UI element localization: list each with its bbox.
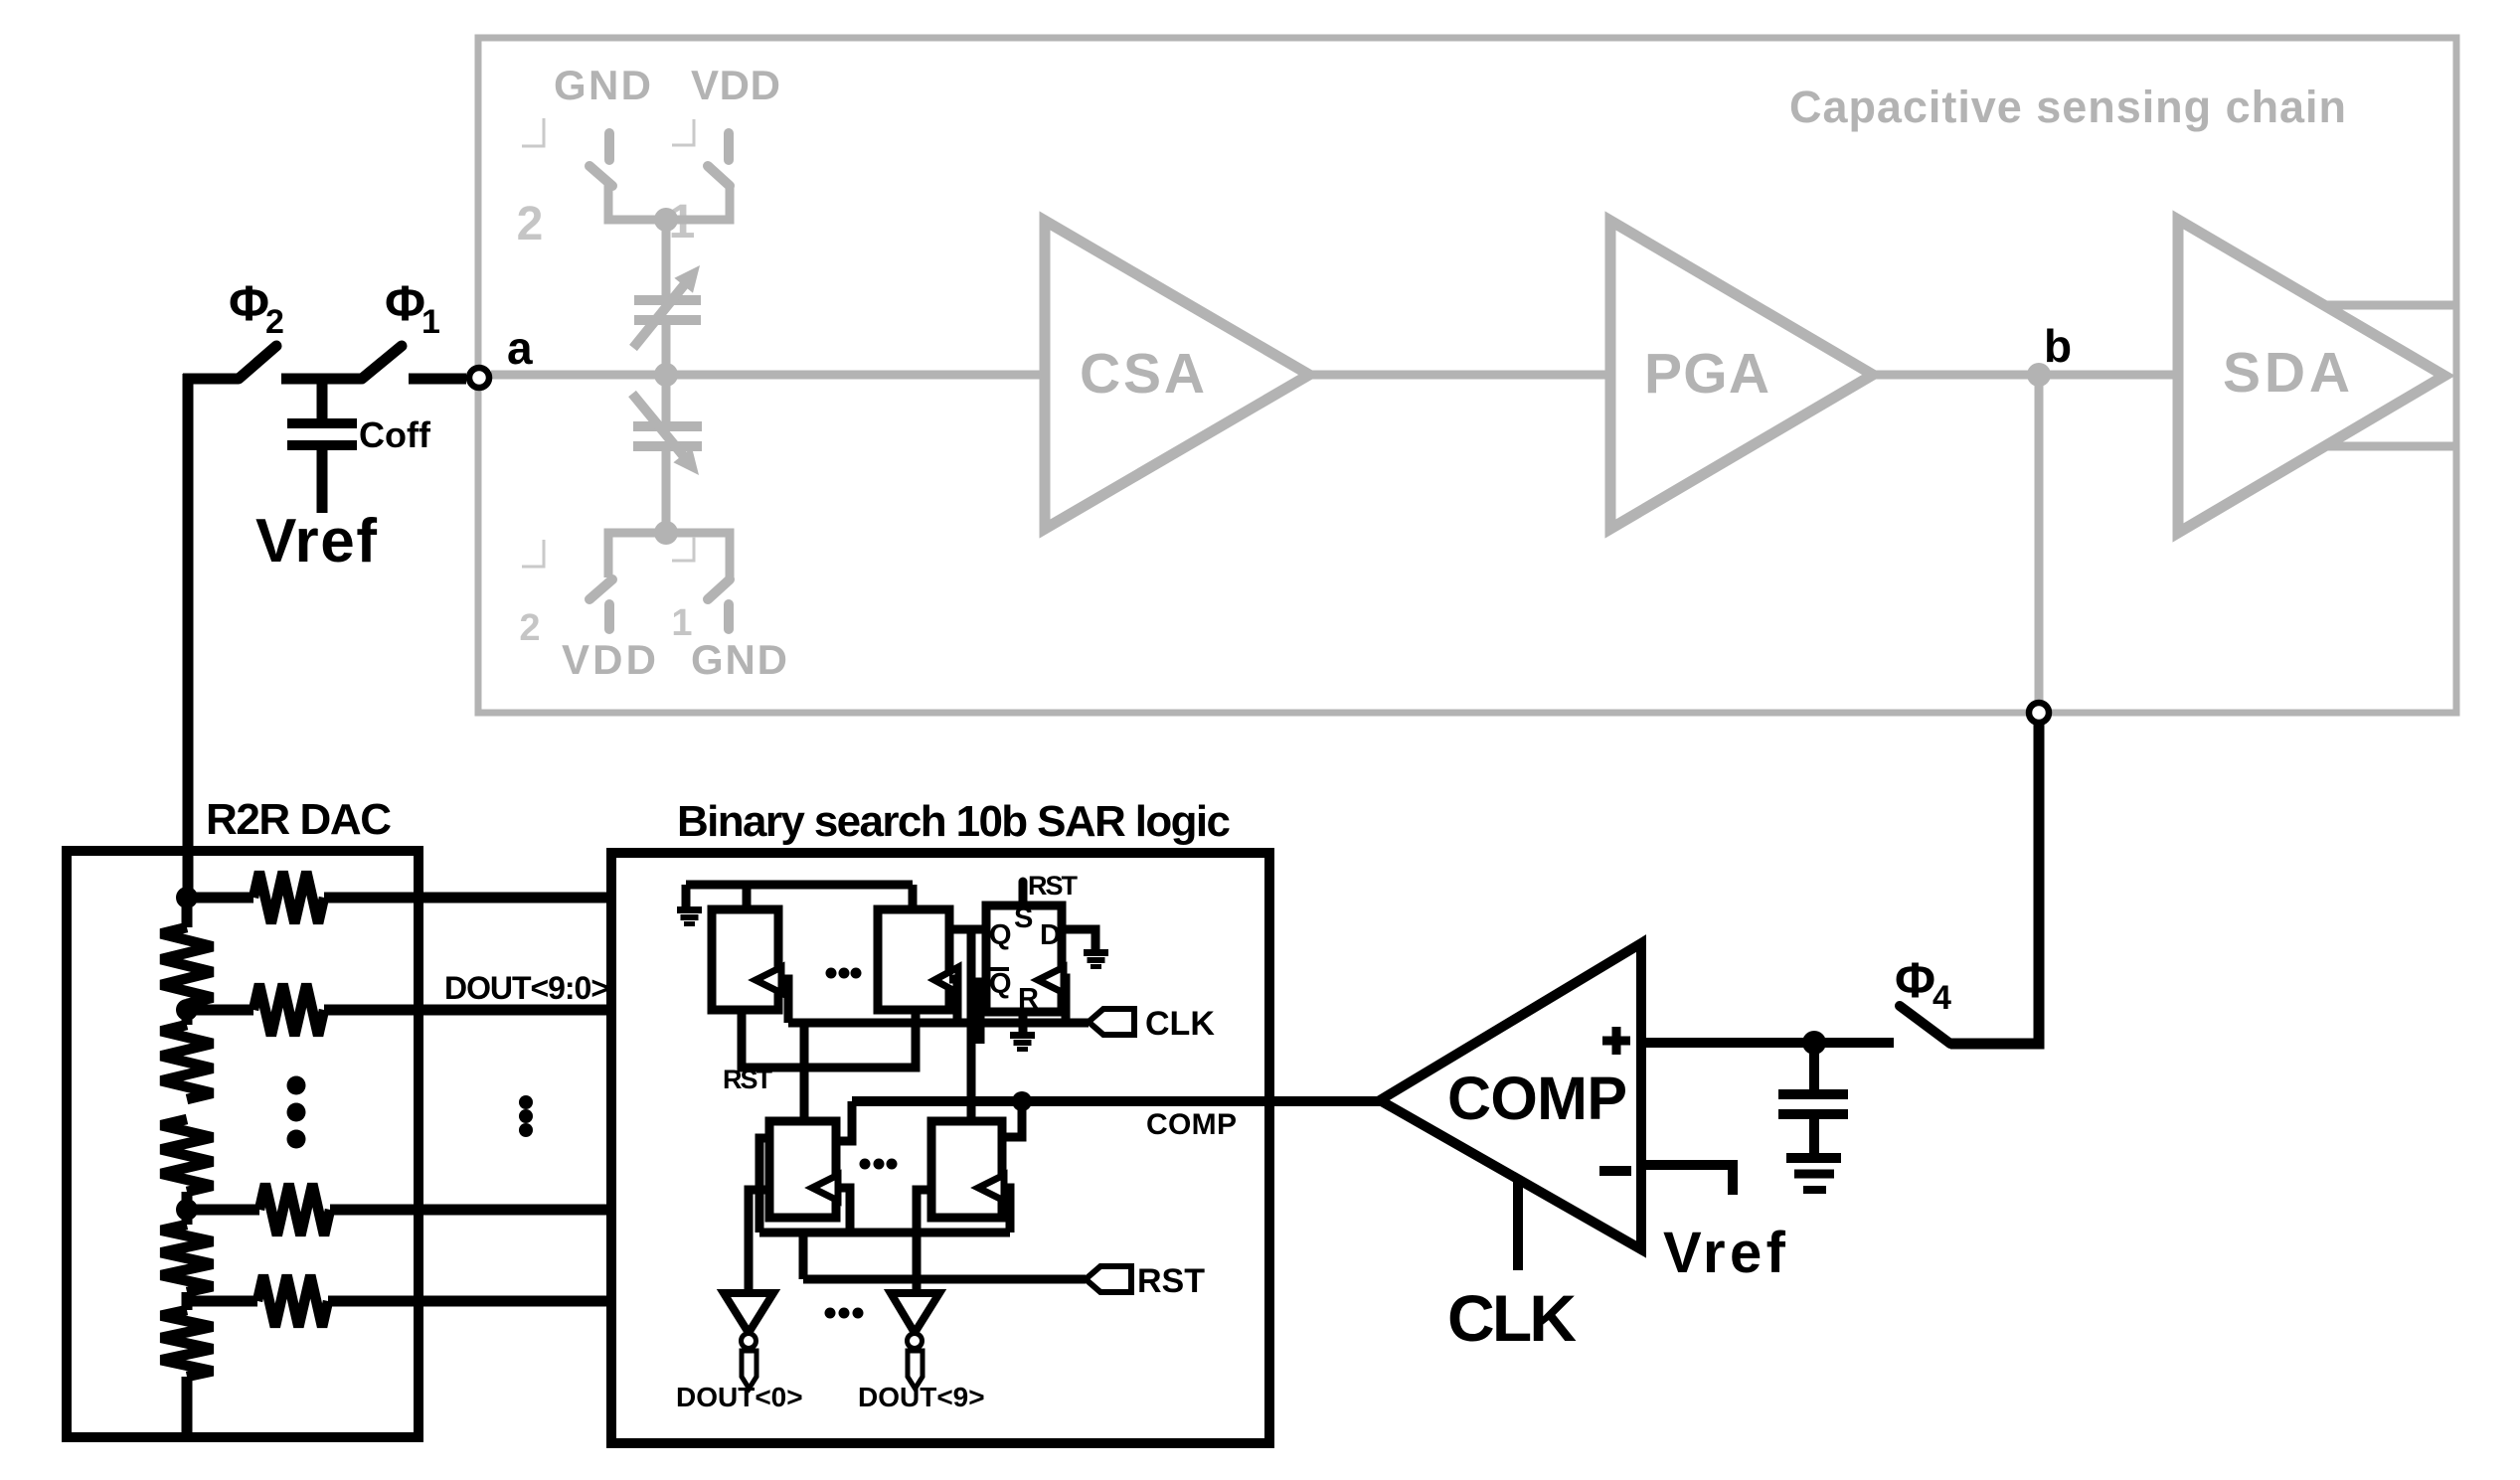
FF3 clock chevron: [812, 1175, 838, 1201]
node top switch junction: [654, 208, 678, 232]
op-amp CSA: [1045, 221, 1309, 529]
wire rail segment: [182, 898, 193, 927]
svg-text:GND: GND: [554, 62, 651, 108]
svg-text:a: a: [507, 322, 533, 374]
svg-text:Q: Q: [989, 968, 1012, 1000]
ellipsis top FF row: [826, 968, 837, 979]
wire comp output to SAR: [852, 1096, 1381, 1106]
svg-text:CLK: CLK: [1145, 1005, 1215, 1043]
resistor 2R row 2: [187, 1005, 253, 1016]
flip-flop FF4: [931, 1121, 1002, 1218]
varcap C2 arrow: [632, 394, 687, 460]
svg-text:VDD: VDD: [562, 636, 656, 683]
ellipsis mid FF row: [860, 1159, 871, 1170]
corner mark bottom-right: [672, 537, 694, 561]
svg-text:Q: Q: [989, 919, 1012, 951]
varcap C2 plates: [633, 421, 702, 431]
wire FF4 chevron down: [1002, 1188, 1010, 1233]
comp minus sign: [1599, 1166, 1631, 1176]
corner mark top-left: [522, 118, 544, 146]
svg-text:COMP: COMP: [1146, 1108, 1237, 1141]
wire clock distribution bus: [788, 1019, 1089, 1028]
wire FF4 Q to inverter: [917, 1190, 931, 1293]
wire FF1 chevron to bus: [778, 979, 788, 1023]
wire rail segment: [182, 1004, 193, 1025]
wire FF3 chevron down: [836, 1188, 850, 1233]
wire U1 Qbar stub: [980, 982, 986, 1044]
wire node b down to box edge: [2035, 375, 2044, 701]
op-amp PGA: [1610, 221, 1873, 529]
U1 clock chevron: [1038, 967, 1064, 993]
svg-text:PGA: PGA: [1644, 342, 1769, 406]
wire bus drop to FF3 top: [800, 1023, 809, 1121]
svg-text:COMP: COMP: [1447, 1065, 1627, 1132]
svg-text:S: S: [1014, 903, 1033, 934]
wire rail to RST port: [799, 1233, 808, 1279]
svg-text:Vref: Vref: [1663, 1221, 1786, 1285]
wire FF3 Q to inverter: [749, 1190, 769, 1293]
switch S1 contact dash (GND): [604, 133, 614, 160]
svg-text:Φ: Φ: [229, 275, 269, 331]
wire U1 Q down to FF4: [967, 929, 976, 1121]
wire CSA to PGA: [1309, 371, 1610, 380]
svg-text:DOUT<0>: DOUT<0>: [676, 1382, 803, 1412]
wire bottom switch poles: [608, 533, 730, 577]
wire between phi2 and phi1: [281, 374, 361, 385]
ellipsis inverter row: [825, 1308, 836, 1319]
svg-text:CLK: CLK: [1447, 1281, 1577, 1355]
wire junction to varcap C1: [662, 220, 671, 296]
svg-text:RST: RST: [723, 1065, 773, 1094]
op-amp SDA: [2178, 220, 2444, 533]
node a open circle: [469, 368, 489, 388]
svg-text:DOUT<9:0>: DOUT<9:0>: [444, 970, 609, 1006]
svg-text:2: 2: [517, 198, 544, 250]
wire U1 R to ground: [1019, 1012, 1028, 1032]
inverter INV0: [724, 1293, 773, 1333]
switch phi4 arm: [1900, 1006, 1950, 1044]
svg-text:R2R DAC: R2R DAC: [206, 795, 392, 844]
switch phi1 arm: [362, 346, 402, 379]
svg-text:Capacitive sensing chain: Capacitive sensing chain: [1789, 82, 2346, 132]
svg-text:SDA: SDA: [2223, 341, 2350, 405]
resistor R ladder 2: [161, 1025, 213, 1099]
svg-text:b: b: [2044, 320, 2072, 372]
wire rail bottom: [182, 1377, 193, 1437]
wire drop to FF2: [909, 885, 918, 909]
resistor R ladder 3: [161, 1119, 213, 1192]
ellipsis dots bus column: [519, 1095, 533, 1109]
resistor 2R row 3: [187, 1205, 259, 1216]
wire SDA output bottom: [2323, 442, 2456, 451]
comparator COMP triangle: [1380, 943, 1641, 1249]
node b junction dot: [2027, 363, 2051, 387]
wire FF3 Qbar to rst rail: [759, 1138, 769, 1233]
wire phi1 to node a: [409, 374, 466, 385]
switch S2 arm: [708, 166, 730, 186]
wire comp minus to Vref: [1640, 1165, 1733, 1195]
resistor 2R row 4: [187, 1296, 257, 1307]
varcap C1 plates: [634, 295, 701, 305]
wire rail segment: [182, 1292, 193, 1310]
svg-text:CSA: CSA: [1080, 342, 1205, 406]
port RST: [1086, 1266, 1131, 1292]
flip-flop FF1: [712, 909, 778, 1010]
wire drop to FF1: [743, 885, 752, 909]
wire comp plus input to phi4 contact: [1640, 1038, 1894, 1048]
resistor R ladder 4: [161, 1225, 213, 1292]
svg-text:Φ: Φ: [385, 275, 425, 331]
FF2 clock chevron: [934, 967, 958, 993]
wire comp line left end to FF3 D: [838, 1101, 852, 1141]
resistor R ladder 5: [161, 1310, 213, 1377]
ellipsis dots R column: [287, 1076, 306, 1095]
wire PGA to SDA: [1873, 371, 2178, 380]
port CLK: [1089, 1009, 1134, 1035]
flip-flop FF2: [878, 909, 949, 1010]
wire SDA output top: [2324, 301, 2456, 310]
ground symbol GS2: [1084, 949, 1108, 956]
wire U1 D to ground: [1062, 929, 1095, 949]
SAR logic box: [611, 853, 1269, 1443]
svg-text:Φ: Φ: [1895, 952, 1935, 1008]
inverter INV9: [891, 1293, 939, 1333]
switch S3 contact dash: [604, 604, 614, 629]
svg-text:RST: RST: [1028, 871, 1079, 901]
switch S4 arm: [708, 579, 730, 599]
ground symbol GS3: [1010, 1032, 1035, 1039]
resistor 2R row 1: [187, 893, 253, 904]
node dac dot 3: [176, 1199, 198, 1221]
wire SAR top bus: [686, 881, 913, 890]
wire top switch poles: [608, 184, 730, 220]
wire lower rail: [759, 1229, 1010, 1237]
wire Vref rail left: [183, 374, 194, 898]
wire node a to CSA input: [491, 371, 1045, 380]
wire comp clock stub: [1513, 1181, 1523, 1270]
wire U1 chevron to bus: [1062, 978, 1066, 1023]
svg-text:VDD: VDD: [691, 62, 780, 108]
wire node b down to phi4: [1950, 725, 2039, 1044]
svg-text:D: D: [1040, 919, 1061, 951]
svg-text:Binary search 10b SAR logic: Binary search 10b SAR logic: [677, 797, 1231, 846]
svg-text:2: 2: [519, 607, 540, 649]
svg-text:4: 4: [1932, 979, 1951, 1017]
varcap C1 arrow: [633, 280, 688, 348]
svg-text:RST: RST: [1137, 1262, 1205, 1300]
svg-text:1: 1: [421, 303, 440, 341]
pin DOUT9: [908, 1351, 923, 1389]
wire Coff to Vref: [317, 449, 328, 513]
svg-text:2: 2: [265, 303, 284, 341]
U1 RST stub: [1019, 882, 1028, 905]
svg-text:Vref: Vref: [255, 507, 377, 576]
switch S2 contact dash (VDD): [724, 133, 734, 160]
switch S4 contact dash: [724, 604, 734, 629]
switch S3 arm: [589, 579, 612, 599]
corner mark bottom-left: [522, 540, 544, 567]
corner mark top-right: [672, 119, 694, 145]
wire FF1 bottom to FF2 bottom: [742, 1010, 916, 1068]
wire FF2 chevron to bus: [949, 979, 957, 1023]
pin DOUT0: [742, 1351, 756, 1389]
svg-text:DOUT<9>: DOUT<9>: [858, 1382, 985, 1412]
node dac dot 2: [176, 999, 198, 1021]
node comp line junction: [1012, 1091, 1032, 1111]
FF1 clock chevron: [756, 967, 781, 993]
node junction dot on plus wire: [1802, 1031, 1826, 1055]
wire rail segment: [182, 1192, 193, 1225]
svg-text:R: R: [1018, 983, 1039, 1015]
ground symbol GS1: [677, 906, 702, 913]
flip-flop U1 SDFF: [986, 905, 1062, 1012]
flip-flop FF3: [769, 1121, 836, 1218]
node a junction dot: [654, 363, 678, 387]
wire C1 to node a: [662, 324, 671, 421]
R2R DAC box: [67, 851, 419, 1437]
svg-text:GND: GND: [691, 636, 787, 683]
capacitive sensing chain box: [478, 38, 2456, 713]
node b open circle on box edge: [2029, 703, 2049, 723]
switch S1 arm: [589, 166, 612, 186]
switch phi2 arm: [239, 346, 276, 379]
svg-text:1: 1: [671, 602, 692, 644]
svg-text:Coff: Coff: [359, 414, 431, 455]
node dac dot 1: [176, 887, 198, 908]
wire comp junction to FF4 D: [1004, 1101, 1022, 1137]
node bottom switch junction: [654, 521, 678, 545]
FF4 clock chevron: [978, 1175, 1004, 1201]
comp plus sign: [1602, 1037, 1630, 1046]
wire C2 to bottom switch junction: [662, 450, 671, 533]
wire FF2 Q to U1: [949, 925, 986, 934]
capacitor Coff: [287, 418, 357, 428]
capacitor C3: [1809, 1043, 1819, 1090]
ground earth symbol: [1786, 1153, 1841, 1163]
resistor R ladder 1: [161, 927, 213, 1004]
